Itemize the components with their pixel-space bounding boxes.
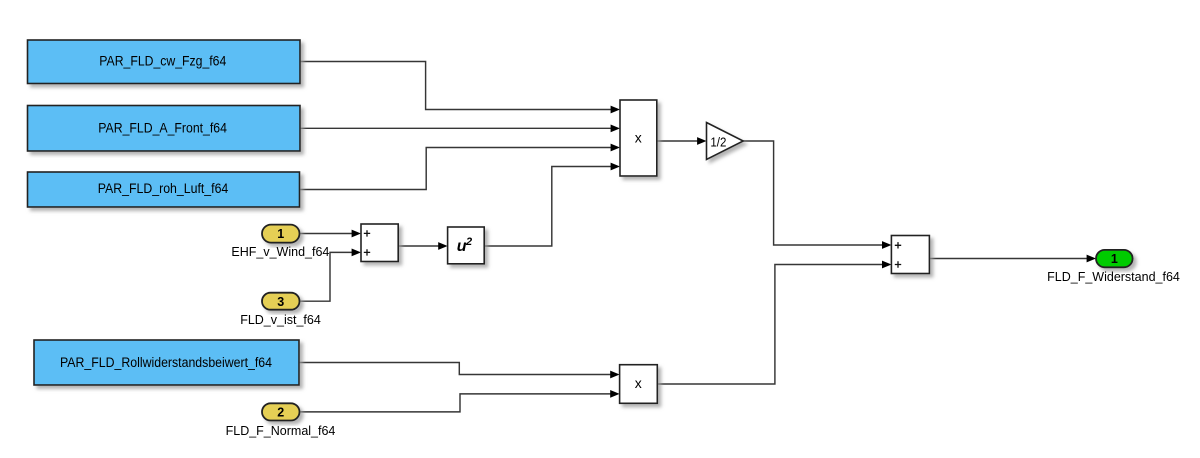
arrowhead P1 input2 xyxy=(611,125,620,133)
sum block S2 xyxy=(891,236,929,274)
gain block 1/2 triangle xyxy=(707,123,744,160)
wire B2 A_Front to product P1 input2 xyxy=(300,127,612,129)
outport 1 oval xyxy=(1096,250,1133,267)
svg-text:PAR_FLD_cw_Fzg_f64: PAR_FLD_cw_Fzg_f64 xyxy=(99,53,226,68)
arrowhead S1 input2 xyxy=(352,249,361,257)
math block u2 xyxy=(448,227,485,264)
arrowhead P2 input2 xyxy=(610,390,619,398)
wire product P2 output to sum S2 input2 xyxy=(657,265,883,385)
svg-text:1: 1 xyxy=(1111,252,1118,266)
constant block B3 PAR_FLD_roh_Luft_f64 xyxy=(28,172,300,207)
wire inport1 to sum S1 input1 xyxy=(300,233,353,235)
arrowhead S2 input1 xyxy=(882,241,891,249)
svg-text:EHF_v_Wind_f64: EHF_v_Wind_f64 xyxy=(231,245,329,259)
wire product P1 output to gain input xyxy=(657,140,698,142)
svg-text:x: x xyxy=(635,375,642,391)
svg-text:2: 2 xyxy=(277,406,284,420)
svg-text:FLD_v_ist_f64: FLD_v_ist_f64 xyxy=(240,313,321,327)
inport 1 oval xyxy=(262,225,300,243)
wire inport2 to product P2 input2 xyxy=(300,394,612,412)
wire inport3 to sum S1 input2 xyxy=(300,252,353,301)
arrowhead P1 input1 xyxy=(611,106,620,114)
arrowhead P2 input1 xyxy=(610,371,619,379)
sum block S1 xyxy=(361,224,398,262)
svg-text:3: 3 xyxy=(277,295,284,309)
arrowhead P1 input4 xyxy=(611,163,620,171)
arrowhead gain input xyxy=(697,137,706,145)
svg-text:PAR_FLD_A_Front_f64: PAR_FLD_A_Front_f64 xyxy=(98,120,227,135)
wire u2 output to product P1 input4 xyxy=(484,167,611,247)
constant block B1 PAR_FLD_cw_Fzg_f64 xyxy=(28,40,301,84)
svg-text:1/2: 1/2 xyxy=(710,134,726,149)
inport 3 oval xyxy=(262,293,300,310)
arrowhead S1 input1 xyxy=(352,230,361,238)
svg-text:PAR_FLD_Rollwiderstandsbeiwert: PAR_FLD_Rollwiderstandsbeiwert_f64 xyxy=(60,355,273,370)
wire B3 roh_Luft to product P1 input3 xyxy=(300,148,612,190)
arrowhead P1 input3 xyxy=(611,144,620,152)
wire B4 Rollwiderstandsbeiwert to product P2 input1 xyxy=(299,363,611,375)
wire sum S1 output to u2 input xyxy=(398,245,439,247)
svg-text:2: 2 xyxy=(465,236,472,248)
svg-text:1: 1 xyxy=(277,227,284,241)
product block P2 xyxy=(620,365,658,404)
wire gain output to sum S2 input1 xyxy=(743,141,883,245)
svg-text:FLD_F_Widerstand_f64: FLD_F_Widerstand_f64 xyxy=(1047,270,1180,284)
constant block B2 PAR_FLD_A_Front_f64 xyxy=(28,106,301,152)
svg-text:FLD_F_Normal_f64: FLD_F_Normal_f64 xyxy=(226,424,336,438)
svg-text:PAR_FLD_roh_Luft_f64: PAR_FLD_roh_Luft_f64 xyxy=(98,181,229,196)
constant block B4 PAR_FLD_Rollwiderstandsbeiwert_f64 xyxy=(34,340,299,385)
inport 2 oval xyxy=(262,403,300,420)
arrowhead S2 input2 xyxy=(882,261,891,269)
wire B1 cw_Fzg to product P1 input1 xyxy=(300,62,612,110)
arrowhead outport input xyxy=(1087,255,1096,263)
product block P1 xyxy=(620,100,657,176)
svg-text:x: x xyxy=(635,129,642,145)
arrowhead u2 input xyxy=(438,242,447,250)
wire sum S2 output to outport xyxy=(929,258,1087,260)
